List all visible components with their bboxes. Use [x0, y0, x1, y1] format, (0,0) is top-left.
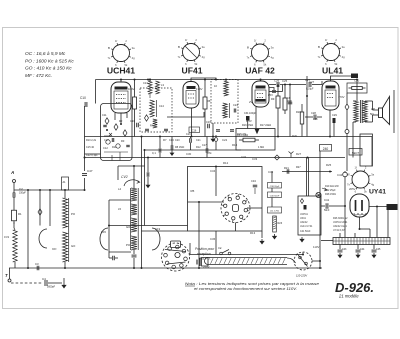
- svg-text:R9: R9: [271, 97, 275, 101]
- svg-text:R17 22kΩ: R17 22kΩ: [260, 124, 271, 127]
- T1 L3 coil: [143, 79, 164, 99]
- converter section box: [101, 104, 133, 161]
- label CV2 and arrow: [121, 175, 140, 186]
- svg-text:GO : 410 Kc à 150 Kc: GO : 410 Kc à 150 Kc: [25, 66, 72, 72]
- tube V2 UF41 envelope: [183, 82, 199, 109]
- capacitor C15: [101, 230, 118, 260]
- diamond bus: [275, 155, 280, 160]
- heater supply box: [298, 196, 321, 235]
- svg-text:1,5V: 1,5V: [246, 119, 252, 123]
- junctions top band: [84, 79, 228, 159]
- V1 top cap wire: [120, 80, 122, 83]
- wire riser x95: [95, 80, 97, 104]
- tube V4 UL41 envelope: [322, 81, 339, 110]
- diamond R in antenna: [38, 209, 42, 215]
- capacitor C34 det: [244, 112, 256, 129]
- boxed label 240: [320, 145, 332, 152]
- wire y200 stub: [109, 199, 131, 201]
- capacitor C47: [82, 169, 93, 175]
- svg-text:C15: C15: [101, 230, 106, 234]
- svg-text:CV1: CV1: [4, 235, 10, 239]
- wire C28 y117: [305, 111, 322, 120]
- resistor R9: [271, 85, 280, 138]
- svg-text:8f: 8f: [108, 46, 110, 50]
- ground heater box: [301, 237, 303, 239]
- T2 bottom trimmers: [216, 130, 234, 132]
- svg-text:UAF 42: UAF 42: [245, 66, 275, 76]
- svg-text:OC : 16,6 à 5,9 Mc: OC : 16,6 à 5,9 Mc: [25, 51, 66, 57]
- svg-text:UCH41: UCH41: [107, 66, 135, 76]
- svg-text:1f: 1f: [185, 38, 187, 42]
- svg-text:21 modèle: 21 modèle: [338, 294, 359, 299]
- resistor R1: [12, 207, 23, 224]
- svg-text:1f: 1f: [115, 39, 117, 43]
- tube base UL41 pinout: [318, 38, 346, 66]
- label C43 C44: [342, 248, 381, 251]
- svg-text:R19 4kΩ 2W: R19 4kΩ 2W: [325, 185, 339, 188]
- junction ladder: [108, 165, 135, 227]
- svg-text:R6: R6: [207, 99, 211, 103]
- svg-text:C19: C19: [206, 120, 211, 124]
- heater chain labels: [333, 217, 348, 232]
- svg-text:C41 50nF: C41 50nF: [300, 230, 311, 233]
- trimmer x160: [159, 137, 161, 158]
- svg-text:C44: C44: [360, 248, 365, 251]
- wire box bottom ext: [142, 230, 188, 232]
- svg-text:Position pour: Position pour: [195, 247, 215, 251]
- resistor R6 stage: [203, 79, 211, 115]
- antenna winding col1: [4, 222, 17, 262]
- mains box SECT: [387, 204, 398, 210]
- mid label row: [86, 139, 201, 157]
- svg-text:C26: C26: [274, 79, 280, 83]
- resistor R18 mid: [296, 104, 304, 137]
- wire x50 vertical: [49, 190, 51, 226]
- T1 primary winding: [150, 100, 157, 117]
- svg-text:C39: C39: [268, 170, 274, 174]
- output transformer: [353, 100, 369, 123]
- svg-text:C16: C16: [192, 129, 197, 132]
- capacitor C3 series: [35, 262, 39, 270]
- main coil ladder group4 PO: [126, 236, 137, 250]
- resistor R4 x134: [133, 79, 137, 115]
- vertical x190 low: [189, 243, 191, 255]
- svg-text:R2: R2: [119, 119, 123, 123]
- wire rail to transformer: [356, 80, 358, 102]
- ladder core: [137, 188, 139, 250]
- svg-text:UF41: UF41: [300, 217, 307, 220]
- boxed label C16: [189, 127, 200, 133]
- T1 diamond R: [145, 115, 149, 121]
- capacitor C45: [372, 245, 377, 258]
- resistor R23 hatched: [273, 216, 283, 232]
- V3 anode side wire: [269, 85, 283, 92]
- svg-text:C43: C43: [342, 248, 347, 251]
- svg-text:C24: C24: [233, 103, 238, 107]
- svg-text:UCH41 UF41: UCH41 UF41: [333, 221, 348, 224]
- wafer switch S1: [221, 194, 250, 223]
- svg-text:Int.: Int.: [218, 246, 222, 250]
- capacitor C41 filter: [321, 198, 346, 212]
- bus y157: [85, 157, 346, 159]
- wire switch right: [247, 207, 262, 209]
- speaker leads: [369, 101, 379, 122]
- svg-text:C13: C13: [143, 81, 148, 85]
- tube base UF41 pinout: [178, 38, 206, 66]
- svg-text:C12: C12: [103, 146, 108, 150]
- svg-text:8f: 8f: [178, 45, 180, 49]
- svg-text:UAF42: UAF42: [300, 221, 308, 224]
- svg-text:C17: C17: [104, 139, 109, 142]
- voltage selector: [287, 252, 312, 270]
- svg-text:C22: C22: [222, 138, 228, 142]
- voltage annotations: [118, 79, 356, 269]
- vertical x262 below box: [261, 231, 263, 238]
- svg-text:R11: R11: [112, 146, 117, 149]
- capacitor C43: [338, 245, 343, 258]
- wire x345 down: [343, 171, 348, 237]
- T1 labels: [150, 104, 164, 128]
- link C40 L11: [271, 198, 273, 208]
- T2 trimmer: [233, 103, 238, 113]
- dropper leads: [321, 206, 388, 241]
- svg-text:C29: C29: [332, 113, 337, 117]
- mixer parts in box: [102, 113, 130, 161]
- svg-text:L4: L4: [118, 187, 122, 191]
- label row R16 R17: [242, 124, 271, 127]
- wire x109 vertical: [108, 200, 110, 252]
- svg-text:C27: C27: [309, 80, 315, 84]
- bus y225 left: [109, 225, 188, 227]
- svg-text:C21: C21: [196, 139, 201, 142]
- vertical x216 low: [215, 231, 217, 255]
- svg-text:R18: R18: [296, 111, 301, 114]
- switch section box: [188, 167, 263, 232]
- svg-text:110-220V: 110-220V: [296, 274, 307, 278]
- terminal T: [5, 273, 11, 282]
- V2 grid lead: [191, 108, 193, 137]
- wire y252 stub: [109, 251, 131, 253]
- dropper taps: [340, 228, 370, 238]
- capacitor C4: [42, 277, 62, 289]
- svg-text:C16: C16: [186, 133, 191, 136]
- wire C4 vertical: [63, 278, 65, 283]
- wire y154 stub: [85, 153, 101, 155]
- svg-text:240: 240: [323, 147, 329, 151]
- wire y254 mains: [190, 254, 303, 256]
- junction dots mid2: [141, 136, 162, 270]
- electrolytic C29: [332, 113, 337, 137]
- svg-text:1f: 1f: [325, 38, 327, 42]
- wire A down: [13, 183, 15, 194]
- wire selector right: [312, 260, 320, 262]
- dial lamp: [316, 192, 321, 197]
- capacitor C2: [13, 187, 26, 198]
- T1 secondary winding: [153, 119, 158, 128]
- vertical x141: [141, 137, 143, 269]
- diode load R14: [237, 134, 264, 149]
- svg-text:150pF: 150pF: [19, 192, 26, 195]
- wire into switch left: [188, 201, 225, 203]
- wire C2 to R1: [13, 197, 15, 207]
- svg-text:C3: C3: [35, 262, 39, 266]
- svg-text:R25: R25: [326, 163, 332, 167]
- svg-text:1f: 1f: [355, 166, 357, 170]
- wire transformer right down: [371, 137, 373, 167]
- wire y166 left stub: [118, 165, 145, 167]
- wire col2 bottom: [64, 262, 66, 268]
- capacitor C16 x134: [130, 114, 138, 137]
- svg-text:C34: C34: [251, 179, 256, 183]
- svg-text:réception: réception: [197, 252, 211, 256]
- svg-text:220V: 220V: [203, 265, 210, 269]
- svg-text:C40 50nF: C40 50nF: [270, 195, 280, 197]
- wire V5 cathode down: [359, 217, 361, 229]
- wire V5 to sect: [369, 206, 387, 208]
- tube V1 UCH41 envelope: [111, 82, 131, 113]
- svg-text:C38 20pF: C38 20pF: [270, 186, 280, 188]
- svg-text:R28 150Ω: R28 150Ω: [325, 193, 336, 196]
- column drop x272: [271, 172, 273, 183]
- wire transformer left down: [352, 122, 354, 158]
- bracket arc right: [152, 228, 160, 250]
- resistor A1 boxed: [62, 177, 69, 198]
- capacitor C34b: [251, 179, 257, 194]
- trimmer x148: [146, 158, 150, 188]
- black box C32: [351, 74, 358, 79]
- svg-text:C34 100pF: C34 100pF: [244, 112, 256, 115]
- junction dots switch: [198, 166, 217, 270]
- svg-text:A: A: [10, 170, 14, 175]
- svg-text:170V: 170V: [196, 87, 203, 91]
- fuse circle: [345, 130, 349, 172]
- svg-text:R20: R20: [287, 99, 292, 103]
- svg-text:R4: R4: [150, 124, 154, 128]
- svg-text:C15 40: C15 40: [86, 146, 95, 149]
- boxed label SECT: [349, 149, 362, 156]
- svg-text:R27: R27: [296, 166, 301, 169]
- capacitor C1b: [186, 133, 191, 150]
- svg-text:100V: 100V: [128, 87, 135, 91]
- chassis bus bottom: [9, 267, 322, 269]
- svg-text:L11 1750: L11 1750: [270, 211, 280, 213]
- bracket arc left: [100, 228, 108, 250]
- wire x28 vertical: [27, 190, 29, 268]
- svg-text:C4: C4: [42, 277, 46, 281]
- svg-text:R27: R27: [296, 152, 302, 156]
- svg-text:UF41: UF41: [181, 66, 202, 76]
- svg-text:R5: R5: [191, 189, 195, 193]
- nota text: [185, 282, 319, 291]
- antenna terminal A: [10, 170, 16, 183]
- svg-text:UL41 UY41: UL41 UY41: [300, 225, 313, 228]
- svg-text:C42: C42: [337, 173, 343, 177]
- svg-text:CV2: CV2: [121, 175, 128, 179]
- grid step wire: [167, 112, 204, 117]
- frequency range notes: [25, 51, 74, 79]
- ladder top wire: [133, 166, 135, 188]
- svg-text:C20: C20: [175, 139, 180, 142]
- svg-text:R12: R12: [223, 161, 229, 165]
- svg-text:C30: C30: [186, 152, 192, 156]
- IF transformer T1 can: [140, 88, 172, 132]
- svg-text:118: 118: [313, 117, 318, 121]
- heater box contents: [300, 199, 313, 234]
- resistor R20: [283, 84, 292, 115]
- boxed label C38: [268, 183, 282, 189]
- svg-text:UAF42 UL41: UAF42 UL41: [333, 225, 347, 228]
- svg-text:R15 47k: R15 47k: [237, 133, 247, 136]
- svg-text:UCH41: UCH41: [300, 213, 309, 216]
- note position PO: [195, 247, 215, 261]
- svg-text:PO : 1600 Kc à 515 Kc: PO : 1600 Kc à 515 Kc: [25, 59, 74, 65]
- capacitor C17 mid: [202, 137, 208, 158]
- diamond R on bus: [214, 133, 247, 150]
- AVC wire y150: [145, 149, 242, 151]
- svg-text:C47: C47: [87, 169, 93, 173]
- mains cable: [205, 258, 288, 265]
- capacitor C26 coupling: [269, 79, 306, 88]
- label R19 rows: [325, 185, 339, 196]
- capacitor C27 series: [305, 78, 322, 91]
- ladder bottom: [132, 250, 137, 269]
- svg-text:R2b: R2b: [292, 134, 298, 138]
- svg-text:des PO.: des PO.: [199, 257, 211, 261]
- wire switch top: [215, 167, 217, 197]
- svg-text:C14: C14: [159, 104, 164, 108]
- main coil ladder group1: [131, 188, 137, 201]
- svg-text:C17: C17: [202, 144, 207, 147]
- svg-text:C11: C11: [102, 113, 107, 117]
- dropper resistor R24: [333, 238, 390, 245]
- main coil ladder group3 GO: [126, 218, 137, 232]
- wire selector top: [302, 252, 304, 255]
- svg-text:R16 47kΩ: R16 47kΩ: [242, 124, 253, 127]
- vertical x290: [287, 84, 292, 137]
- HT rail top: [96, 79, 358, 81]
- wire x118 drop: [117, 166, 119, 180]
- svg-text:MF : 472 Kc.: MF : 472 Kc.: [25, 73, 52, 79]
- ground x262: [261, 239, 263, 241]
- capacitor C14 gnd: [169, 137, 174, 156]
- capacitor C10 input: [80, 96, 87, 107]
- svg-text:47k: 47k: [207, 151, 212, 155]
- wire x40 vertical: [39, 190, 41, 226]
- capacitor C29 line: [306, 76, 308, 137]
- bus y136: [85, 136, 373, 138]
- svg-text:SECT: SECT: [352, 151, 360, 155]
- diamond R22: [345, 93, 349, 130]
- IF transformer T2 can: [211, 80, 238, 124]
- svg-text:C22 0,1µF: C22 0,1µF: [86, 154, 98, 157]
- svg-text:T: T: [5, 273, 8, 278]
- svg-text:C33: C33: [252, 157, 258, 161]
- svg-text:C10: C10: [80, 96, 86, 100]
- svg-text:R1: R1: [18, 212, 22, 216]
- wire x320 vertical: [319, 151, 321, 268]
- svg-text:C16: C16: [130, 119, 135, 123]
- wire switch bottom: [235, 223, 237, 232]
- antenna coil col2 lower: [63, 232, 68, 262]
- svg-text:C41: C41: [324, 198, 330, 202]
- boxed label L11: [268, 207, 282, 213]
- svg-text:170V: 170V: [338, 95, 345, 99]
- ground R23: [274, 234, 276, 236]
- V2 top cap wire: [191, 78, 216, 82]
- capacitor C19: [205, 114, 211, 137]
- svg-text:UY41: UY41: [369, 189, 386, 196]
- svg-text:R8 1MΩ: R8 1MΩ: [175, 146, 184, 149]
- svg-text:R13: R13: [232, 143, 238, 147]
- wire x199 down: [198, 202, 200, 268]
- antenna coil col2 upper: [63, 198, 68, 228]
- svg-text:L5: L5: [118, 207, 122, 211]
- svg-text:C28: C28: [311, 111, 316, 115]
- svg-text:C32: C32: [241, 155, 247, 159]
- diode return arrow: [255, 129, 259, 134]
- svg-text:R13: R13: [250, 231, 256, 235]
- label HP impedance: [370, 107, 375, 116]
- T2 top winding: [214, 80, 228, 97]
- V1 pin leads: [115, 113, 127, 124]
- mains switch Int: [218, 246, 231, 255]
- detector box: [236, 129, 275, 151]
- wire T2 left down: [212, 123, 214, 137]
- speaker: [379, 90, 395, 133]
- coil col2 core: [68, 198, 70, 262]
- tube V5 UY41 envelope: [350, 194, 369, 217]
- V3 diode lead: [269, 88, 274, 91]
- choke box: [360, 134, 372, 166]
- capacitor C44: [356, 245, 361, 258]
- wafer switch bottom view: [162, 241, 190, 271]
- svg-text:C36: C36: [210, 237, 216, 241]
- wire y171 link: [282, 171, 332, 173]
- svg-text:R12: R12: [196, 146, 201, 149]
- svg-text:C19: C19: [155, 227, 161, 231]
- vertical x144: [144, 150, 146, 226]
- svg-text:C14: C14: [169, 139, 174, 142]
- svg-text:50nF: 50nF: [324, 209, 330, 212]
- wire T stub: [9, 268, 11, 279]
- svg-text:85V: 85V: [268, 93, 273, 97]
- R21 cap group: [284, 166, 289, 174]
- svg-text:UL41: UL41: [322, 66, 343, 76]
- dashed earth lead: [11, 282, 42, 284]
- tube base UY41 pinout: [347, 166, 375, 194]
- svg-text:205V: 205V: [349, 187, 356, 191]
- svg-text:0,1: 0,1: [152, 151, 156, 155]
- svg-text:110V: 110V: [313, 245, 319, 249]
- V3 cathode lead: [255, 107, 257, 129]
- T1 trimmer caps: [145, 129, 168, 131]
- junction dots osc: [27, 189, 86, 269]
- tone box C30: [347, 79, 367, 94]
- svg-text:C34: C34: [210, 169, 216, 173]
- V4 cathode lead: [329, 110, 331, 137]
- svg-text:R23: R23: [278, 222, 283, 225]
- svg-text:R26 300Ω A2: R26 300Ω A2: [333, 217, 348, 220]
- svg-text:R7: R7: [163, 138, 167, 142]
- svg-text:et correspondent au fonctionne: et correspondent au fonctionnement sur s…: [194, 287, 297, 291]
- Y symbol bus: [289, 152, 294, 158]
- switch arc OC: [39, 229, 57, 251]
- svg-text:UY41 6,3V: UY41 6,3V: [333, 229, 345, 232]
- labels col2: [71, 212, 76, 248]
- mains plug: [197, 258, 208, 267]
- nota underline: [185, 285, 195, 287]
- wire y190 top link: [14, 189, 85, 191]
